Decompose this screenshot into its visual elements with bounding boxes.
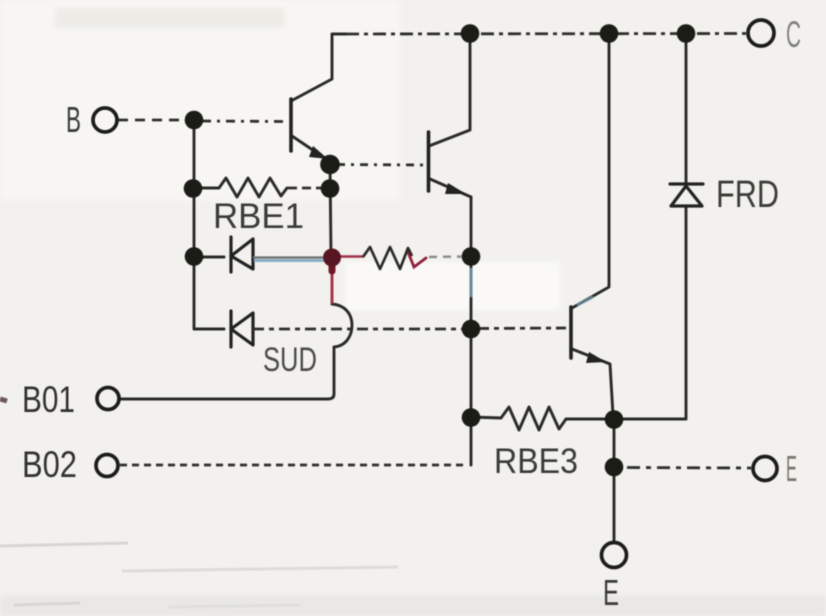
svg-text:B02: B02	[22, 444, 77, 485]
svg-text:SUD: SUD	[263, 341, 317, 379]
svg-text:FRD: FRD	[716, 174, 779, 216]
svg-text:RBE1: RBE1	[213, 197, 304, 236]
svg-text:E: E	[603, 572, 619, 613]
svg-text:C: C	[786, 14, 801, 55]
svg-text:E: E	[786, 448, 797, 489]
svg-text:B: B	[66, 99, 81, 140]
svg-text:B01: B01	[22, 379, 75, 420]
svg-text:RBE3: RBE3	[494, 442, 578, 481]
